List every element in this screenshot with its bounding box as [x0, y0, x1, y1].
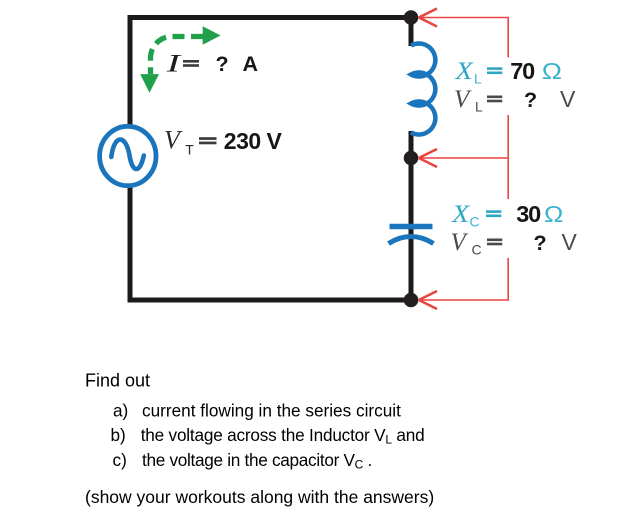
green arrowhead right: [203, 26, 221, 44]
wire right upper stub (node A to inductor top): [409, 18, 414, 47]
label VT = 230 V: [164, 126, 283, 158]
svg-text:V: V: [164, 126, 183, 155]
svg-text:?: ?: [216, 52, 229, 76]
svg-text:X: X: [451, 199, 471, 227]
svg-text:V: V: [562, 229, 578, 255]
node dot middle: [404, 151, 419, 166]
label XL = 70 ohm: [454, 56, 562, 86]
green current arrow (dashed curve): [151, 37, 204, 75]
label VC = ? V: [451, 229, 578, 258]
svg-text:A: A: [243, 52, 259, 76]
wire left (top-left corner through source to bottom-left corner): [128, 15, 133, 300]
svg-text:?: ?: [524, 88, 537, 112]
svg-text:30: 30: [516, 201, 541, 227]
label I = ? A: [165, 50, 258, 78]
svg-text:C: C: [470, 214, 480, 230]
svg-text:current flowing in the series: current flowing in the series circuit: [142, 401, 401, 421]
svg-text:Ω: Ω: [542, 58, 562, 84]
red arrow to node bottom: [419, 291, 509, 309]
svg-text:Find out: Find out: [85, 370, 150, 390]
svg-text:b): b): [111, 425, 126, 445]
svg-text:?: ?: [534, 231, 547, 255]
wire bottom (bottom-left corner to node C): [128, 298, 412, 303]
svg-text:the voltage in the capacitor V: the voltage in the capacitor VC .: [142, 450, 372, 472]
wire top (node A to top-left corner): [128, 15, 412, 20]
node dot bottom: [404, 293, 419, 308]
svg-text:T: T: [185, 142, 194, 158]
svg-text:70: 70: [510, 58, 535, 84]
red bracket vertical line: [507, 18, 509, 301]
svg-text:I: I: [165, 50, 182, 78]
svg-text:c): c): [113, 450, 127, 470]
AC source V1 (VT): [100, 126, 156, 185]
svg-text:V: V: [560, 86, 576, 112]
svg-text:C: C: [472, 242, 482, 258]
label XC = 30 ohm: [451, 199, 563, 229]
svg-text:the voltage across the Inducto: the voltage across the Inductor VL and: [141, 425, 425, 447]
capacitor C1 curved plate: [389, 237, 434, 244]
wire right (inductor bottom to node B): [409, 131, 414, 158]
red arrow to node middle: [419, 149, 509, 167]
svg-text:L: L: [474, 71, 482, 87]
inductor L1 coil: [411, 43, 435, 134]
svg-text:230 V: 230 V: [224, 128, 283, 154]
green arrowhead down: [140, 74, 159, 93]
svg-text:V: V: [454, 86, 472, 113]
svg-text:V: V: [451, 229, 469, 256]
node dot top: [404, 10, 419, 25]
svg-text:(show your workouts along with: (show your workouts along with the answe…: [85, 487, 434, 507]
svg-text:a): a): [113, 401, 128, 421]
svg-text:Ω: Ω: [544, 202, 563, 228]
red arrow to node top: [419, 9, 509, 27]
wire right lower (node B through capacitor to node C): [409, 158, 414, 300]
capacitor C1 top plate: [390, 224, 433, 229]
label VL = ? V: [454, 86, 576, 115]
svg-text:X: X: [454, 56, 474, 84]
svg-text:L: L: [475, 99, 483, 115]
